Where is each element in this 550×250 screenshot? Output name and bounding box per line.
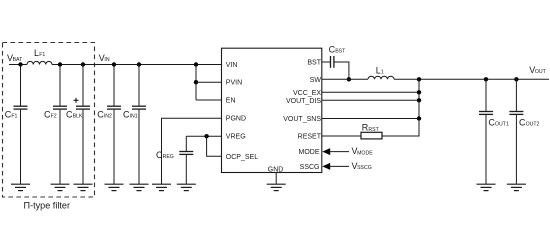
- svg-text:BAT: BAT: [13, 57, 24, 63]
- capacitor CIN2: [97, 65, 121, 185]
- svg-text:Π-type filter: Π-type filter: [24, 201, 71, 211]
- junction VBAT-CF1: [18, 62, 22, 66]
- wire PGND to ground: [162, 118, 222, 184]
- svg-text:IN1: IN1: [130, 113, 138, 119]
- svg-text:MODE: MODE: [299, 149, 320, 156]
- ground PGND: [152, 184, 171, 190]
- inductor LF1: [27, 48, 52, 65]
- svg-text:SSCG: SSCG: [300, 164, 320, 171]
- wire to EN pin: [196, 99, 222, 101]
- wire VOUT_SNS: [322, 118, 419, 120]
- svg-text:IN2: IN2: [104, 113, 112, 119]
- junction VREG/OCP_SEL: [204, 134, 208, 138]
- arrow into MODE pin: [322, 148, 349, 155]
- svg-text:PGND: PGND: [226, 116, 246, 123]
- junction COUT2: [514, 77, 518, 81]
- junction CBST-SW: [347, 77, 351, 81]
- arrow into SSCG pin: [322, 163, 349, 170]
- wire feedback column vertical: [418, 79, 420, 136]
- capacitor CIN1: [123, 65, 146, 185]
- junction CIN1: [137, 62, 141, 66]
- capacitor COUT1: [479, 79, 509, 184]
- wire LF1 to VIN pin (input rail): [52, 64, 222, 66]
- wire to PVIN pin: [196, 81, 222, 83]
- node VIN: [99, 53, 110, 63]
- ground CF1: [11, 184, 30, 190]
- wire VREG to CREG: [186, 135, 221, 137]
- svg-text:SSCG: SSCG: [357, 165, 372, 171]
- Π-type filter dashed box: [3, 43, 95, 198]
- capacitor CREG: [156, 136, 193, 184]
- svg-text:REG: REG: [163, 154, 174, 160]
- svg-text:VREG: VREG: [226, 134, 246, 141]
- wire PVIN branch vertical: [195, 65, 197, 101]
- svg-text:SW: SW: [310, 77, 322, 84]
- wire CBST to SW: [334, 62, 349, 79]
- node VBAT: [7, 53, 23, 63]
- capacitor CBST: [329, 45, 347, 68]
- svg-text:BLK: BLK: [73, 113, 83, 119]
- svg-text:VCC_EX: VCC_EX: [293, 90, 321, 97]
- wire VBAT to LF1: [9, 64, 27, 66]
- inductor L1: [368, 65, 394, 79]
- junction CBLK: [81, 62, 85, 66]
- svg-text:IN: IN: [104, 57, 109, 63]
- ground GND pin: [267, 184, 286, 190]
- svg-text:EN: EN: [226, 97, 236, 104]
- junction COUT1: [484, 77, 488, 81]
- node VMODE: [352, 146, 374, 156]
- svg-text:RST: RST: [368, 127, 379, 133]
- capacitor CF1: [5, 65, 28, 185]
- capacitor CF2: [44, 65, 67, 185]
- junction VOUT_SNS: [417, 116, 421, 120]
- svg-text:1: 1: [381, 69, 384, 75]
- svg-text:F1: F1: [11, 113, 17, 119]
- svg-text:BST: BST: [307, 60, 321, 67]
- junction CIN2: [112, 62, 116, 66]
- capacitor CBLK (polarized): [66, 65, 90, 185]
- svg-text:VOUT_SNS: VOUT_SNS: [283, 116, 321, 123]
- junction VOUT_DIS: [417, 98, 421, 102]
- ground CREG: [177, 184, 196, 190]
- junction feedback column: [417, 77, 421, 81]
- wire RESET to RRST: [322, 135, 361, 137]
- ground COUT1: [477, 184, 496, 190]
- junction CF2: [58, 62, 62, 66]
- svg-text:MODE: MODE: [357, 150, 373, 156]
- svg-text:GND: GND: [268, 166, 284, 173]
- ground COUT2: [507, 184, 526, 190]
- node VSSCG: [352, 161, 372, 171]
- wire OCP_SEL to VREG: [207, 136, 222, 156]
- svg-text:RESET: RESET: [298, 134, 322, 141]
- svg-text:OCP_SEL: OCP_SEL: [226, 154, 258, 161]
- wire BST to CBST: [322, 61, 330, 63]
- svg-text:BST: BST: [335, 49, 346, 55]
- resistor RRST: [361, 123, 382, 139]
- ground CIN1: [130, 184, 149, 190]
- svg-text:F1: F1: [39, 52, 45, 58]
- wire VCC_EX: [322, 91, 419, 93]
- svg-text:F2: F2: [51, 113, 57, 119]
- svg-text:OUT: OUT: [535, 69, 547, 75]
- svg-text:VOUT_DIS: VOUT_DIS: [286, 98, 321, 105]
- IC U1 body: [222, 48, 322, 172]
- wire RRST to feedback column: [382, 119, 419, 137]
- svg-text:OUT1: OUT1: [495, 122, 509, 128]
- ground CBLK: [74, 184, 93, 190]
- ground CIN2: [105, 184, 124, 190]
- node VOUT: [529, 65, 546, 75]
- capacitor COUT2: [509, 79, 539, 184]
- wire GND pin stem: [275, 173, 277, 185]
- junction PVIN: [194, 80, 198, 84]
- wire VOUT_DIS: [322, 99, 419, 101]
- svg-text:PVIN: PVIN: [226, 80, 242, 87]
- wire VOUT rail: [394, 78, 549, 80]
- svg-text:OUT2: OUT2: [526, 122, 540, 128]
- junction PVIN branch: [194, 62, 198, 66]
- junction VCC_EX: [417, 90, 421, 94]
- svg-text:VIN: VIN: [226, 62, 238, 69]
- wire SW to L1: [322, 78, 368, 80]
- ground CF2: [51, 184, 70, 190]
